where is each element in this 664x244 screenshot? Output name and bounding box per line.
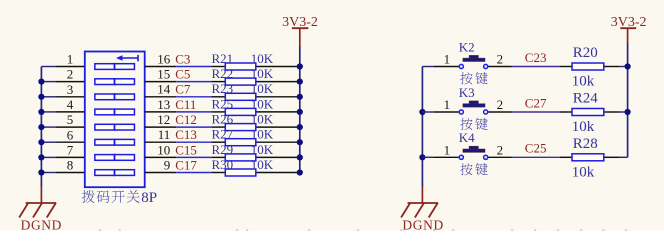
white crop band at bottom [0,230,664,244]
push button K3 pin 2 circle [484,110,488,114]
wire DIP pin 8 (left side row 8) [41,172,56,174]
wire bus to button K2 pin 1 [422,66,434,68]
svg-text:C11: C11 [175,97,196,112]
wire DIP pin 4 (left side row 4) [41,111,56,113]
svg-text:R28: R28 [573,136,598,152]
wire 3V3-2 rail vertical (right block) [627,43,629,157]
svg-text:C12: C12 [175,112,197,127]
svg-text:R23: R23 [212,81,234,96]
wire button K2 pin 2 to resistor R20 (net C23) [488,66,511,68]
DIP switch paddle 3 [95,94,135,100]
svg-text:10K: 10K [251,142,274,157]
svg-text:9: 9 [164,157,171,172]
wire resistor R30 to 3V3-2 rail [256,172,300,174]
resistor R29 body [225,154,256,161]
svg-text:C25: C25 [525,141,547,156]
resistor R22 body [225,78,256,85]
svg-text:R20: R20 [573,45,598,61]
ground DGND (right) [421,186,423,203]
junction on left bus row 5 [38,124,44,130]
resistor R24 body [572,109,604,116]
svg-text:C3: C3 [175,51,190,66]
svg-text:5: 5 [67,112,74,127]
svg-text:C5: C5 [175,67,190,82]
wire left bus vertical (rows 1-8 to ground) [40,67,42,187]
faint cropped text specks at bottom edge [99,229,101,231]
wire button K4 pin 2 to resistor R28 (net C25) [488,156,511,158]
junction on left bus row 2 [38,79,44,85]
wire resistor R23 to 3V3-2 rail [256,96,300,98]
push button K2 pin 1 circle [459,64,463,68]
power symbol 3V3-2 (right block) [620,27,636,29]
svg-text:C23: C23 [525,50,547,65]
wire bus to button K4 pin 1 [422,156,434,158]
resistor R26 body [225,124,256,131]
power symbol 3V3-2 (left block) [292,27,308,29]
svg-text:8P: 8P [141,190,157,206]
wire right bus vertical (buttons to ground) [421,67,423,187]
junction on 3V3-2 rail row 5 [297,124,303,130]
DIP switch paddle 4 [95,109,135,115]
svg-text:R29: R29 [212,142,234,157]
svg-text:1: 1 [67,52,74,67]
resistor R27 body [225,139,256,146]
svg-text:10K: 10K [251,96,274,111]
DIP switch paddle 1 [95,64,135,70]
svg-text:2: 2 [497,142,504,157]
DIP switch position-1 arrow marker [121,57,138,59]
push button K4 cap [463,149,485,152]
svg-text:DGND: DGND [402,217,443,232]
wire button K3 pin 2 to resistor R24 (net C27) [488,111,511,113]
wire resistor R20 to 3V3-2 rail [604,66,619,68]
wire DIP pin 11 to resistor R27 (net C13) [145,141,177,143]
svg-text:1: 1 [444,142,451,157]
junction on 3V3-2 rail row 4 [297,109,303,115]
svg-text:R26: R26 [212,112,234,127]
wire DIP pin 3 (left side row 3) [41,96,56,98]
resistor R21 body [225,63,256,70]
wire resistor R25 to 3V3-2 rail [256,111,300,113]
svg-text:15: 15 [157,67,170,82]
wire DIP pin 15 to resistor R22 (net C5) [145,81,177,83]
label 拨码开关8P [82,190,95,203]
wire DIP pin 12 to resistor R26 (net C12) [145,126,177,128]
svg-text:8: 8 [67,158,74,173]
junction on left bus row 8 [38,169,44,175]
svg-text:3: 3 [67,82,74,97]
svg-text:14: 14 [157,82,171,97]
svg-text:C13: C13 [175,127,197,142]
svg-text:3V3-2: 3V3-2 [282,15,318,30]
push button K4 pin 1 circle [459,155,463,159]
label 按键 [460,163,472,175]
label 按键 [460,72,472,84]
junction on right 3V3-2 rail at K2 row [625,63,631,69]
svg-text:10K: 10K [251,157,274,172]
ground DGND (left) [40,186,42,203]
junction on 3V3-2 rail row 1 [297,63,303,69]
push button K2 pin 2 circle [484,64,488,68]
wire resistor R24 to 3V3-2 rail [604,111,619,113]
push button K4 pin 2 circle [484,155,488,159]
wire DIP pin 2 (left side row 2) [41,81,56,83]
wire DIP pin 5 (left side row 5) [41,126,56,128]
DIP switch S1 body 拨码开关8P [85,52,145,188]
junction on right 3V3-2 rail at K3 row [625,109,631,115]
svg-text:R22: R22 [212,66,234,81]
DIP switch paddle 6 [95,139,135,145]
junction on right bus at K3 row [419,109,425,115]
svg-text:R30: R30 [212,157,234,172]
push button K2 cap [463,58,485,61]
junction on left bus row 3 [38,94,44,100]
wire DIP pin 6 (left side row 6) [41,141,56,143]
wire resistor R26 to 3V3-2 rail [256,126,300,128]
svg-text:10k: 10k [572,74,595,90]
wire resistor R21 to 3V3-2 rail [256,66,300,68]
DIP switch paddle 7 [95,155,135,161]
DIP switch paddle 5 [95,124,135,130]
junction on 3V3-2 rail row 8 [297,169,303,175]
svg-text:10K: 10K [251,81,274,96]
wire resistor R29 to 3V3-2 rail [256,156,300,158]
svg-text:10K: 10K [251,127,274,142]
junction on 3V3-2 rail row 7 [297,154,303,160]
svg-text:12: 12 [157,112,170,127]
label 按键 [460,118,472,130]
svg-text:10k: 10k [572,119,595,135]
svg-text:K4: K4 [459,130,475,145]
resistor R25 body [225,108,256,115]
wire DIP pin 10 to resistor R29 (net C15) [145,156,177,158]
DIP switch paddle 2 [95,79,135,85]
wire DIP pin 14 to resistor R23 (net C7) [145,96,177,98]
junction on left bus row 6 [38,139,44,145]
wire DIP pin 13 to resistor R25 (net C11) [145,111,177,113]
svg-text:1: 1 [444,52,451,67]
svg-text:R27: R27 [212,127,234,142]
svg-text:6: 6 [67,127,74,142]
wire 3V3-2 rail vertical (left block) [299,46,301,173]
push button K3 pin 1 circle [459,110,463,114]
resistor R28 body [572,154,604,161]
svg-text:C15: C15 [175,142,197,157]
DIP switch paddle 8 [95,170,135,176]
junction on left bus row 4 [38,109,44,115]
svg-text:10K: 10K [251,66,274,81]
svg-text:13: 13 [157,97,170,112]
wire DIP pin 7 (left side row 7) [41,156,56,158]
wire bus to button K3 pin 1 [422,111,434,113]
svg-text:10k: 10k [572,164,595,180]
svg-text:2: 2 [67,67,74,82]
wire DIP pin 9 to resistor R30 (net C17) [145,172,177,174]
svg-text:2: 2 [497,52,504,67]
svg-text:K3: K3 [459,85,475,100]
resistor R23 body [225,93,256,100]
svg-text:4: 4 [67,97,74,112]
resistor R30 body [225,169,256,176]
svg-text:7: 7 [67,143,74,158]
svg-text:10K: 10K [251,112,274,127]
svg-text:2: 2 [497,97,504,112]
junction on 3V3-2 rail row 3 [297,94,303,100]
svg-text:C27: C27 [525,95,547,110]
wire DIP pin 16 to resistor R21 (net C3) [145,66,177,68]
svg-text:R21: R21 [212,51,234,66]
svg-text:11: 11 [158,127,171,142]
svg-text:3V3-2: 3V3-2 [611,15,647,30]
svg-text:C7: C7 [175,82,191,97]
wire resistor R28 to 3V3-2 rail [604,156,619,158]
wire resistor R22 to 3V3-2 rail [256,81,300,83]
push button K3 cap [463,104,485,107]
svg-text:R24: R24 [573,91,599,107]
svg-text:1: 1 [444,97,451,112]
svg-text:10K: 10K [251,51,274,66]
svg-text:10: 10 [157,142,170,157]
svg-text:DGND: DGND [21,217,62,232]
junction on right bus at K4 row [419,154,425,160]
wire resistor R27 to 3V3-2 rail [256,141,300,143]
wire DIP pin 1 (left side row 1) [41,66,56,68]
svg-text:C17: C17 [175,157,197,172]
junction on 3V3-2 rail row 6 [297,139,303,145]
svg-text:K2: K2 [459,39,475,54]
resistor R20 body [572,63,604,70]
svg-text:R25: R25 [212,96,234,111]
svg-text:16: 16 [157,51,171,66]
junction on left bus row 7 [38,154,44,160]
junction on 3V3-2 rail row 2 [297,79,303,85]
